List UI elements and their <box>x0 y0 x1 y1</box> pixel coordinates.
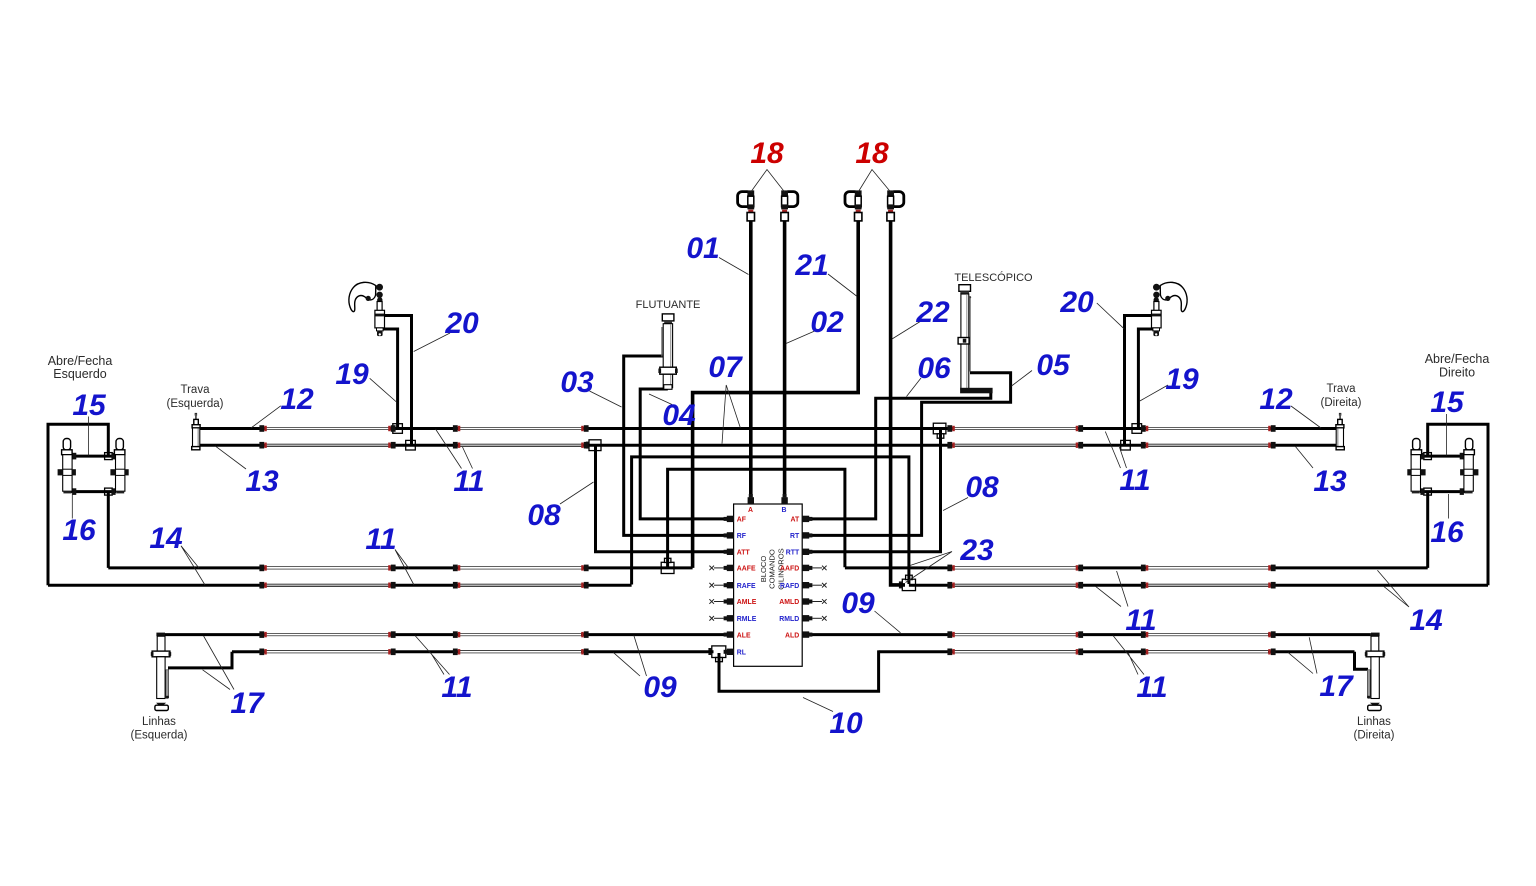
pointer 20 left <box>414 333 450 352</box>
svg-text:14: 14 <box>149 522 183 555</box>
svg-text:TELESCÓPICO: TELESCÓPICO <box>954 271 1033 284</box>
svg-text:Esquerdo: Esquerdo <box>53 367 107 381</box>
pointer 18 right <box>858 170 890 193</box>
pointer 17 right <box>1288 637 1317 673</box>
linhas cylinder left <box>151 633 171 711</box>
svg-text:12: 12 <box>280 383 314 416</box>
pointer 16 left <box>71 494 73 519</box>
wire hose 22 coupler to right tee <box>891 221 905 585</box>
pointer 15 right <box>1446 414 1448 456</box>
valve block BLOCO COMANDO CILINDROS <box>734 504 803 666</box>
pointer 11 b <box>395 550 414 586</box>
wire hose 05 telescopico side to RT <box>810 373 1011 536</box>
wire crossover left tee to right middle upper row <box>668 469 845 567</box>
junction tee lever20R on row1b <box>1121 440 1131 450</box>
pointer 05 <box>1012 371 1033 387</box>
svg-text:03: 03 <box>560 366 594 399</box>
pointer 13 left <box>215 446 246 469</box>
pointer 06 <box>907 378 922 397</box>
svg-text:RAFE: RAFE <box>737 583 756 590</box>
wire row3b bottom lower line y651.8 <box>266 650 1270 653</box>
quick coupler 18 b <box>781 190 798 221</box>
pointer 09 left <box>613 635 646 676</box>
junction tee crossover on row2a <box>661 558 674 573</box>
capped stubs with x left <box>709 566 723 621</box>
svg-text:07: 07 <box>708 351 743 384</box>
svg-text:(Direita): (Direita) <box>1321 397 1362 409</box>
junction tee lever19L on row1a <box>393 424 403 434</box>
wire hose 04 flutuante bottom to AF <box>640 387 726 519</box>
svg-text:19: 19 <box>1165 363 1199 396</box>
junction tee lever19R on row1a <box>1132 424 1142 434</box>
svg-text:02: 02 <box>810 306 844 339</box>
pointer 19 right <box>1140 385 1168 401</box>
svg-text:Direito: Direito <box>1439 366 1475 380</box>
svg-text:22: 22 <box>915 296 950 329</box>
pointer 22 <box>892 321 921 339</box>
svg-text:09: 09 <box>841 587 875 620</box>
port labels <box>737 507 800 657</box>
svg-text:B: B <box>782 507 787 514</box>
svg-text:AAFE: AAFE <box>737 566 756 573</box>
junction tee lever20L on row1b <box>406 440 416 450</box>
junction elbow hose08L on row1b <box>586 440 601 451</box>
pointer 10 <box>803 698 833 712</box>
pointer 15 left <box>88 417 90 456</box>
pointer 19 left <box>370 378 397 402</box>
svg-text:08: 08 <box>527 499 561 532</box>
svg-text:(Direita): (Direita) <box>1354 730 1395 742</box>
svg-text:RF: RF <box>737 533 746 540</box>
port A connector <box>748 494 754 504</box>
junction tee 23 on row2b <box>899 575 916 590</box>
wire hose 17 left linhas lower <box>168 652 232 668</box>
wire hose 01 coupler to port A <box>749 221 753 498</box>
svg-text:Trava: Trava <box>181 384 211 396</box>
pointer 02 <box>786 330 817 344</box>
lever valve left <box>349 282 385 336</box>
quick coupler 18 a <box>738 190 755 221</box>
pointer 11 d <box>1096 571 1129 607</box>
pointer 23 <box>906 552 953 583</box>
svg-text:Abre/Fecha: Abre/Fecha <box>48 354 113 368</box>
svg-text:RL: RL <box>737 650 746 657</box>
svg-text:RTT: RTT <box>786 550 800 557</box>
svg-text:11: 11 <box>365 523 396 556</box>
quick coupler 18 c <box>845 190 862 221</box>
junction tee RL with hose10 <box>708 646 725 662</box>
svg-text:FLUTUANTE: FLUTUANTE <box>636 299 701 311</box>
flutuante cylinder <box>658 314 677 389</box>
svg-text:13: 13 <box>1313 465 1347 498</box>
svg-text:AMLE: AMLE <box>737 599 757 606</box>
abre/fecha cylinder group right <box>1407 424 1488 585</box>
svg-text:15: 15 <box>72 389 107 422</box>
svg-text:17: 17 <box>1319 670 1354 703</box>
svg-text:11: 11 <box>1136 671 1167 704</box>
lever valve right <box>1152 282 1188 336</box>
svg-text:21: 21 <box>794 249 828 282</box>
wire hose 08 left ATT to lower trava row <box>596 446 727 552</box>
svg-text:23: 23 <box>959 534 994 567</box>
pointer 08 left <box>560 482 594 504</box>
svg-text:AT: AT <box>791 517 800 524</box>
svg-text:COMANDO: COMANDO <box>768 549 777 589</box>
port stubs left side <box>724 516 734 655</box>
svg-text:RMLD: RMLD <box>779 616 799 623</box>
svg-text:13: 13 <box>245 465 279 498</box>
quick coupler 18 d <box>887 190 904 221</box>
pointer 09 right <box>875 611 901 633</box>
svg-text:06: 06 <box>917 352 951 385</box>
pointer 11 c <box>1105 432 1126 469</box>
pointer 12 right <box>1291 406 1321 428</box>
svg-text:RAFD: RAFD <box>780 583 799 590</box>
pointer 17 left <box>203 636 234 690</box>
svg-text:18: 18 <box>855 137 889 170</box>
svg-text:08: 08 <box>965 471 999 504</box>
pointer 11 a <box>436 429 473 469</box>
svg-text:AF: AF <box>737 517 746 524</box>
pointer 16 right <box>1448 494 1450 519</box>
svg-text:Linhas: Linhas <box>1357 716 1391 728</box>
trava cylinder left <box>192 413 200 450</box>
svg-text:17: 17 <box>230 687 265 720</box>
pointer 03 <box>590 391 622 407</box>
wire hose 06 telescopico bottom to AT <box>810 392 991 519</box>
pointer 21 <box>828 274 857 296</box>
trava cylinder right <box>1336 413 1344 450</box>
pointer 08 right <box>943 498 968 511</box>
pointer 01 <box>719 258 749 275</box>
svg-text:RMLE: RMLE <box>737 616 757 623</box>
svg-text:11: 11 <box>453 465 484 498</box>
pointer 07 <box>722 385 740 444</box>
port B connector <box>781 494 787 504</box>
pointer 11 e <box>415 636 450 675</box>
svg-text:AMLD: AMLD <box>779 599 799 606</box>
linhas cylinder right <box>1365 633 1385 711</box>
wire hose 03 flutuante side to RF <box>624 356 727 535</box>
svg-text:04: 04 <box>662 399 696 432</box>
telescopico cylinder <box>958 285 993 394</box>
svg-text:ALD: ALD <box>785 632 799 639</box>
pointer 18 left <box>751 170 785 193</box>
pointer 12 left <box>251 406 281 428</box>
pointer 14 right <box>1377 570 1409 607</box>
svg-text:20: 20 <box>444 307 479 340</box>
svg-text:05: 05 <box>1036 349 1071 382</box>
wire hose 19 right lever bottom port <box>1138 329 1154 430</box>
svg-text:(Esquerda): (Esquerda) <box>167 398 224 410</box>
pointer 04 <box>649 394 672 405</box>
wire long link left middle lower row to right tee <box>632 457 909 585</box>
svg-text:(Esquerda): (Esquerda) <box>131 730 188 742</box>
svg-text:16: 16 <box>1430 516 1464 549</box>
pointer 13 right <box>1295 446 1313 468</box>
svg-text:12: 12 <box>1259 383 1293 416</box>
svg-text:A: A <box>748 507 753 514</box>
svg-text:16: 16 <box>62 514 96 547</box>
svg-text:10: 10 <box>829 707 863 740</box>
wire hose 20 right lever side port <box>1125 316 1152 447</box>
pointer 11 f <box>1113 636 1144 675</box>
wire hose 20 left lever side port <box>384 316 411 447</box>
pointer 14 left <box>181 546 205 585</box>
svg-text:20: 20 <box>1059 286 1094 319</box>
svg-text:11: 11 <box>441 671 472 704</box>
svg-text:18: 18 <box>750 137 784 170</box>
svg-text:09: 09 <box>643 671 677 704</box>
svg-text:Trava: Trava <box>1327 383 1357 395</box>
svg-text:14: 14 <box>1409 604 1443 637</box>
wire hose 02 coupler to port B <box>783 221 787 498</box>
svg-text:ALE: ALE <box>737 632 751 639</box>
svg-text:11: 11 <box>1125 604 1156 637</box>
svg-text:AAFD: AAFD <box>780 566 799 573</box>
svg-text:Linhas: Linhas <box>142 716 176 728</box>
wire row1b lower trava line y445.2 <box>266 444 1270 447</box>
wire hose 08 right RTT to upper trava row <box>810 429 941 552</box>
svg-text:BLOCO: BLOCO <box>759 556 768 583</box>
wire hose 10 RL tee to right bottom lower row <box>719 650 879 691</box>
pointer 20 right <box>1097 303 1124 329</box>
svg-text:19: 19 <box>335 358 369 391</box>
abre/fecha cylinder group left <box>48 424 129 585</box>
wire row2a middle upper line y567.9 <box>266 566 1270 569</box>
capped stubs with x right <box>812 566 826 621</box>
svg-text:11: 11 <box>1119 464 1150 497</box>
svg-text:15: 15 <box>1430 386 1465 419</box>
wire hose 21 coupler to left middle row <box>693 221 859 568</box>
wire row3a bottom upper line y634.6 <box>266 633 1270 636</box>
svg-text:Abre/Fecha: Abre/Fecha <box>1425 352 1490 366</box>
junction tee hose08R on row1a <box>933 423 946 438</box>
svg-text:01: 01 <box>686 232 719 265</box>
svg-text:RT: RT <box>790 533 800 540</box>
wire row2b middle lower line y585.2 <box>266 584 1270 587</box>
svg-text:ATT: ATT <box>737 550 751 557</box>
wire hose 19 left lever bottom port <box>382 329 398 430</box>
wire hose 17 right linhas lower <box>1355 652 1369 669</box>
port stubs right side <box>802 516 812 638</box>
wire row1a left trava line y428.5 <box>266 427 1270 430</box>
